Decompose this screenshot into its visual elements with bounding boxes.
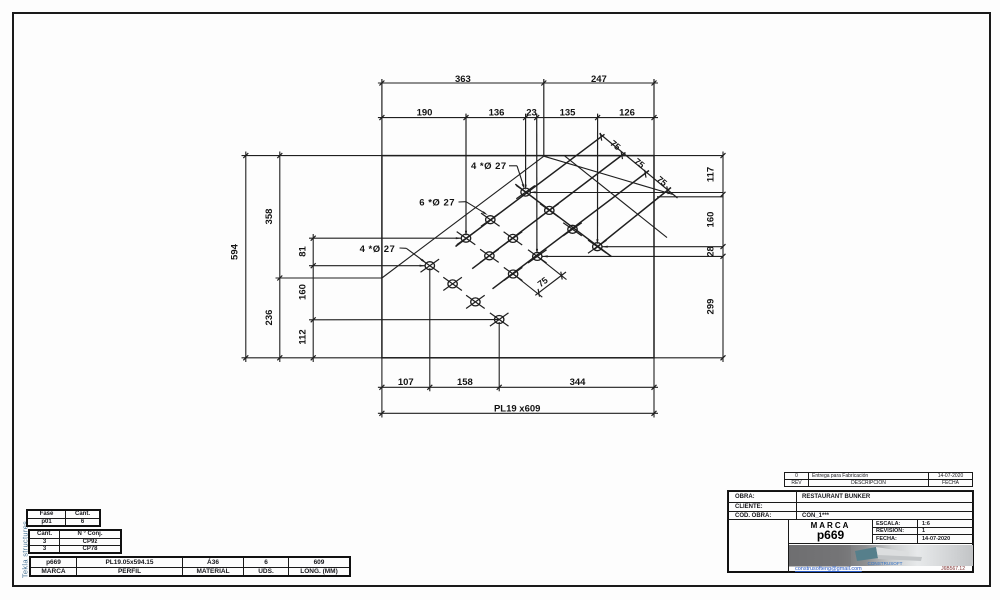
svg-text:358: 358 — [264, 209, 275, 225]
ext line bottom right corner — [653, 358, 655, 418]
ext line plate top — [242, 155, 724, 157]
bolt hole H10 — [504, 267, 523, 280]
ext line to H1 — [525, 114, 527, 187]
svg-text:344: 344 — [570, 377, 587, 388]
svg-text:117: 117 — [706, 167, 717, 182]
svg-text:6 *Ø 27: 6 *Ø 27 — [419, 197, 455, 208]
bolt hole H13 — [466, 295, 485, 308]
bolt row line R2 — [472, 153, 625, 269]
ext line L2 end right — [657, 196, 723, 198]
ext line 363 split — [543, 79, 545, 156]
vertical Tekla structures text — [21, 518, 30, 582]
ext line H4 row right — [603, 246, 724, 248]
ext line from H14 down — [498, 322, 500, 391]
bolt hole H6 — [457, 232, 476, 245]
left dim line 81/160/112 — [312, 234, 314, 362]
ext line to H6 — [465, 114, 467, 233]
bolt hole H7 — [504, 232, 523, 245]
ext line to H4 — [597, 114, 599, 242]
dim line 75-75-75 — [600, 134, 678, 199]
svg-text:594: 594 — [230, 243, 241, 260]
bolt hole H4 — [588, 240, 607, 253]
svg-text:28: 28 — [706, 246, 717, 257]
bolt hole H9 — [528, 250, 547, 263]
bottom dim row 107/158/344 — [378, 386, 658, 388]
ext line corner A row — [276, 277, 382, 279]
svg-text:4 *Ø 27: 4 *Ø 27 — [471, 161, 507, 172]
dim 75 middle group dim line — [535, 272, 566, 295]
beam outline diagonal L1 — [382, 156, 544, 278]
svg-text:126: 126 — [619, 108, 635, 119]
svg-text:136: 136 — [489, 108, 505, 119]
bolt hole H3 — [563, 223, 582, 236]
left dim line 358/236 — [279, 152, 281, 363]
top dim row 190/136/23/135/126 — [378, 117, 658, 119]
plate outline PL19x609 — [382, 156, 654, 358]
ext line row1 right — [653, 79, 655, 156]
table fase/cant — [26, 509, 101, 527]
ext line H14 row — [309, 319, 499, 321]
svg-text:236: 236 — [264, 310, 275, 326]
top dim row 363/247 — [378, 82, 658, 84]
beam outline diagonal L3 — [564, 156, 667, 238]
bottom dim row PL19 x609 — [378, 412, 658, 414]
svg-text:75: 75 — [632, 156, 646, 170]
svg-text:PL19 x609: PL19 x609 — [494, 404, 540, 415]
svg-text:135: 135 — [560, 108, 577, 119]
svg-text:75: 75 — [536, 275, 550, 289]
title block — [727, 490, 974, 573]
ext line from H11 down — [429, 268, 431, 391]
svg-text:363: 363 — [455, 74, 471, 85]
svg-text:23: 23 — [526, 108, 537, 119]
svg-text:160: 160 — [298, 284, 309, 300]
ext line H11 row — [309, 265, 425, 267]
bolt hole H12 — [443, 277, 462, 290]
left dim line 594 — [245, 152, 247, 363]
svg-text:158: 158 — [457, 377, 473, 388]
ext line H9 row right — [543, 255, 724, 257]
beam outline shallow line L2 — [544, 156, 673, 194]
ext line H6 row — [309, 237, 461, 239]
svg-text:4 *Ø 27: 4 *Ø 27 — [360, 244, 396, 255]
table cant/n-conj — [28, 529, 122, 554]
marca cell — [788, 519, 873, 544]
svg-text:190: 190 — [417, 108, 433, 119]
revision table — [784, 472, 973, 487]
bolt row line R1 — [456, 134, 605, 246]
bolt hole H14 — [490, 313, 509, 326]
svg-text:81: 81 — [298, 246, 309, 257]
svg-text:160: 160 — [706, 212, 717, 228]
bolt row line R3 — [493, 171, 650, 289]
contact row — [789, 566, 973, 573]
bolt row line top group (H1-H4) — [515, 184, 611, 256]
ext line H1 row right — [531, 192, 724, 194]
bolt hole H8 — [480, 249, 499, 262]
svg-text:75: 75 — [655, 174, 669, 188]
ext line plate bottom — [242, 357, 724, 359]
bolt row line R4 — [594, 188, 671, 250]
logo band — [789, 545, 973, 566]
svg-text:112: 112 — [298, 329, 309, 344]
dim 75 middle group ext lines — [537, 256, 566, 279]
svg-text:247: 247 — [591, 74, 607, 85]
bolt hole H11 — [421, 259, 440, 272]
bolt hole H2 — [540, 204, 559, 217]
svg-text:299: 299 — [706, 299, 717, 315]
ext line bottom left corner — [381, 358, 383, 418]
escala table — [872, 519, 974, 544]
svg-text:107: 107 — [398, 377, 414, 388]
table marca/perfil — [29, 556, 351, 577]
bolt hole H1 — [516, 186, 535, 199]
right dim line 117/160/28/299 — [722, 152, 724, 363]
ext line row1 left — [381, 79, 383, 156]
bolt hole H5 — [481, 213, 500, 226]
ext line to H9 — [536, 114, 538, 252]
